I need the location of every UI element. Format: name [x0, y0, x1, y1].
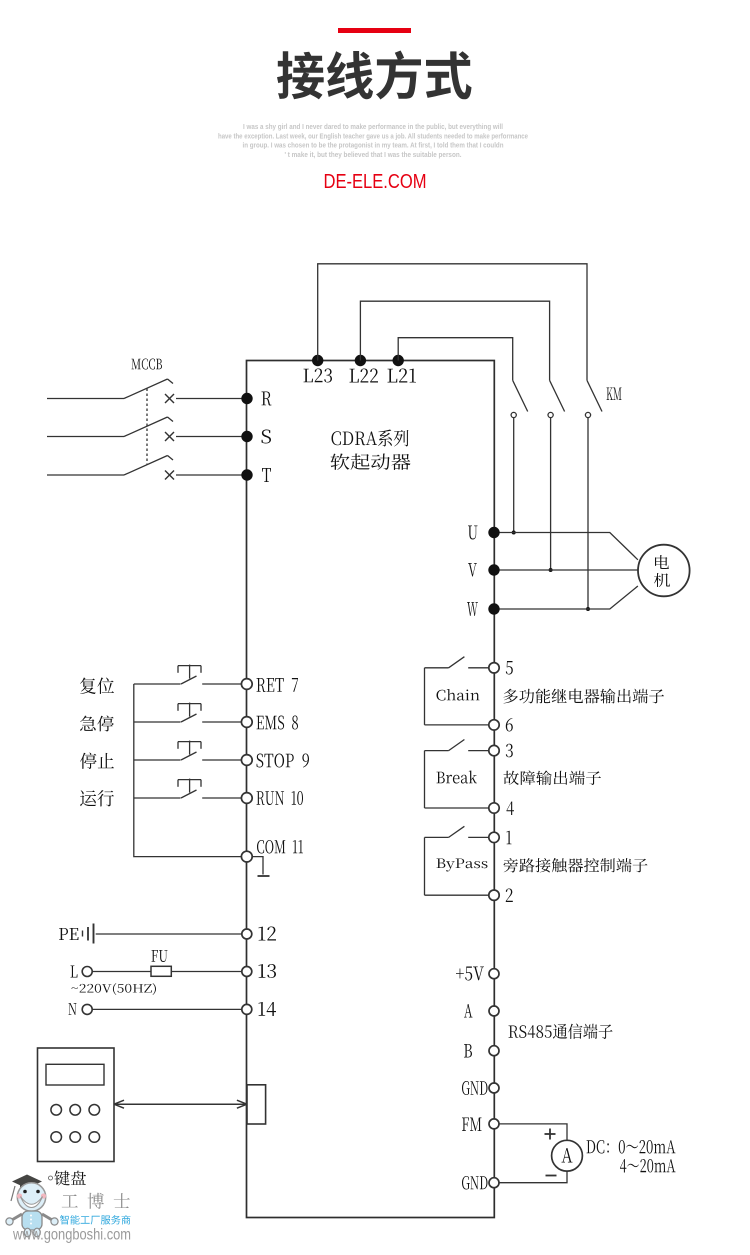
- terminal S: [241, 431, 252, 442]
- label DC range: [587, 1140, 676, 1154]
- terminal 12: [242, 929, 252, 939]
- earth electrode: [82, 931, 84, 937]
- svg-text:in group. I was chosen to be t: in group. I was chosen to be the protago…: [243, 141, 504, 150]
- fuse FU: [151, 966, 171, 976]
- wire W to motor: [494, 586, 638, 609]
- contactor KM poles: [513, 380, 528, 411]
- svg-text:www.gongboshi.com: www.gongboshi.com: [12, 1227, 131, 1244]
- label 220V: [72, 983, 157, 995]
- pushbutton 停止: [134, 759, 181, 761]
- terminal GND: [489, 1083, 499, 1093]
- svg-text:' t make it, but they believed: ' t make it, but they believed that I wa…: [285, 150, 462, 159]
- title 接线方式: [277, 51, 472, 100]
- source terminal L: [82, 967, 92, 977]
- label L: [71, 966, 78, 978]
- pushbutton 急停: [134, 721, 181, 723]
- terminal L23: [312, 355, 323, 366]
- ground at COM: [252, 857, 263, 875]
- control bus wire: [134, 684, 241, 857]
- terminal GND: [489, 1178, 499, 1188]
- keypad cable arrow: [114, 1103, 247, 1105]
- terminal R: [241, 393, 252, 404]
- label RS485通信端子: [509, 1024, 613, 1040]
- label CDRA系列: [332, 430, 409, 447]
- polarity minus: [546, 1175, 557, 1177]
- terminal L21: [393, 355, 404, 366]
- terminal RUN 10: [241, 793, 252, 804]
- label KM: [607, 388, 622, 401]
- motor M: [638, 545, 690, 597]
- breaker MCCB poles: [47, 398, 124, 400]
- label PE: [59, 928, 79, 940]
- terminal EMS 8: [241, 717, 252, 728]
- terminal COM 11: [241, 851, 252, 862]
- relay contact Break: [425, 750, 449, 752]
- wire ammeter to GND: [499, 1171, 567, 1183]
- label 故障输出端子: [504, 771, 602, 786]
- keypad connector: [247, 1085, 266, 1124]
- svg-text:DE-ELE.COM: DE-ELE.COM: [324, 171, 427, 193]
- wire L to fuse: [92, 971, 151, 973]
- wire L22 to KM pole 2: [360, 301, 549, 380]
- label 软起动器: [331, 454, 411, 471]
- relay contact Chain: [425, 667, 449, 669]
- terminal T: [241, 469, 252, 480]
- wire U to motor: [494, 533, 638, 560]
- terminal 13: [242, 967, 252, 977]
- watermark mascot: [11, 1186, 15, 1201]
- terminal FM: [489, 1119, 499, 1129]
- source terminal N: [82, 1004, 92, 1014]
- terminal STOP 9: [241, 755, 252, 766]
- wire fuse to 13: [171, 971, 242, 973]
- terminal +5V: [489, 969, 499, 979]
- polarity plus: [545, 1133, 556, 1135]
- breaker MCCB label: [132, 359, 163, 370]
- wire N to 14: [92, 1008, 242, 1010]
- ammeter A: [552, 1140, 583, 1171]
- terminal RET 7: [241, 679, 252, 690]
- relay contact ByPass: [425, 836, 449, 838]
- label 多功能继电器输出端子: [504, 689, 665, 704]
- title bar: [338, 28, 411, 33]
- wire L21 to KM pole 1: [398, 338, 513, 381]
- label N: [69, 1003, 77, 1015]
- wire L23 to KM pole 3: [318, 264, 587, 381]
- wire FM to ammeter: [499, 1124, 567, 1140]
- terminal U: [488, 527, 499, 538]
- keypad: [38, 1048, 115, 1162]
- wire PE to 12: [96, 933, 242, 935]
- terminal 14: [242, 1004, 252, 1014]
- label 旁路接触器控制端子: [504, 858, 648, 873]
- label 键盘: [49, 1176, 53, 1180]
- pushbutton 复位: [134, 683, 181, 685]
- pushbutton 运行: [134, 797, 181, 799]
- terminal B: [489, 1046, 499, 1056]
- terminal V: [488, 564, 499, 575]
- terminal A: [489, 1006, 499, 1016]
- soft starter enclosure: [247, 361, 495, 1218]
- wire V to motor: [494, 569, 638, 571]
- svg-text:have the exception. Last week,: have the exception. Last week, our Engli…: [218, 131, 528, 140]
- watermark 工博士: [62, 1193, 130, 1209]
- terminal W: [488, 603, 499, 614]
- svg-text:I was a shy girl and I never d: I was a shy girl and I never dared to ma…: [243, 122, 503, 131]
- watermark 智能工厂服务商: [60, 1215, 131, 1225]
- terminal L22: [355, 355, 366, 366]
